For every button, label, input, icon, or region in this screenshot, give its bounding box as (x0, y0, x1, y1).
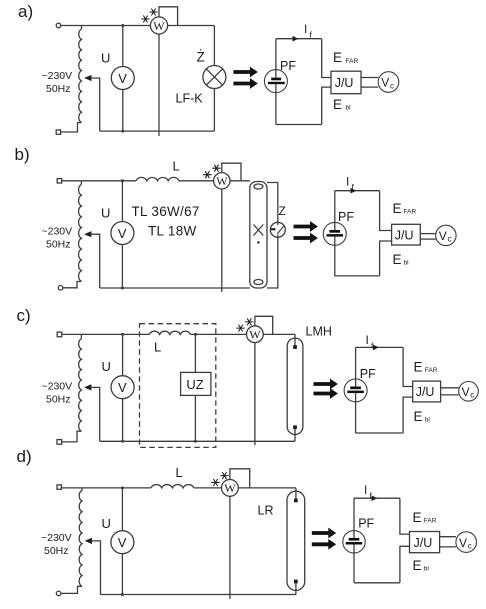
wire bottom rail (c) (100, 440, 295, 442)
svg-text:V: V (118, 226, 127, 241)
autotransformer T1 winding (d) (81, 488, 83, 491)
wire voltmeter branch (b) (121, 181, 123, 288)
svg-text:U: U (102, 516, 111, 531)
photocell PF (d) (343, 531, 365, 553)
wire top rail right (b) (179, 180, 250, 182)
wattmeter W1 (d) (222, 480, 239, 497)
svg-text:50Hz: 50Hz (46, 239, 71, 251)
voltmeter V1 (c) (111, 376, 134, 399)
wire tap to load (d) (91, 541, 101, 595)
wire bottom terminal to winding (d) (61, 586, 82, 593)
wire measuring loop bottom (d) (354, 582, 400, 584)
wire bottom rail (b) (100, 287, 250, 289)
voltmeter Vc (d) (456, 532, 477, 553)
electrode top ellipse (b) (254, 184, 263, 189)
wattmeter W1 (c) (247, 326, 264, 343)
photocell PF wire top (a) (275, 39, 277, 78)
svg-text:U: U (101, 51, 110, 66)
svg-text:E: E (393, 252, 402, 267)
current direction arrowhead If (d) (372, 495, 378, 501)
svg-text:TL 18W: TL 18W (148, 224, 197, 239)
wattmeter W1 (b) (214, 173, 230, 189)
wire bottom terminal to winding (b) (63, 282, 82, 288)
polarity asterisk 2 (b) (203, 171, 211, 178)
wire J/U to Vc lower (b) (420, 238, 436, 240)
svg-text:UZ: UZ (186, 377, 203, 392)
light emission arrow 1 (d) (312, 529, 335, 538)
voltmeter Vc (a) (378, 72, 399, 93)
autotransformer T1 winding (c) (80, 334, 82, 338)
lamp tube LMH (c) (287, 338, 303, 434)
node V-bottom junction (a) (121, 130, 124, 133)
wiper tap arrow (c) (84, 384, 91, 390)
wattmeter W1 (a) (150, 17, 167, 34)
current direction arrowhead If (a) (293, 36, 299, 42)
svg-text:V: V (118, 380, 127, 395)
voltmeter V1 (b) (111, 222, 134, 245)
svg-text:b): b) (15, 145, 30, 164)
svg-text:a): a) (18, 2, 33, 21)
wire J/U to Vc lower (a) (361, 86, 378, 88)
converter J/U box (b) (392, 224, 421, 245)
wire measuring loop bottom (b) (335, 275, 380, 277)
polarity asterisk 1 (a) (149, 9, 157, 16)
node V-bottom junction (d) (121, 593, 124, 596)
wire voltmeter branch (c) (122, 334, 124, 441)
svg-text:V: V (462, 385, 470, 399)
terminal top-left (d) (57, 485, 61, 489)
wire tap to load (c) (90, 387, 99, 441)
svg-text:I: I (304, 22, 307, 36)
svg-text:bl: bl (424, 566, 430, 573)
wire wattmeter current branch (a) (158, 34, 160, 136)
wire voltmeter branch (d) (121, 488, 123, 595)
node V-top junction (a) (121, 24, 124, 27)
svg-text:LMH: LMH (306, 325, 332, 339)
svg-text:FAR: FAR (425, 367, 438, 374)
wire wattmeter current branch (c) (254, 343, 256, 446)
converter J/U box (d) (410, 532, 440, 553)
electrode stub top (d) (295, 488, 297, 500)
svg-text:J/U: J/U (395, 228, 414, 242)
lamp LF-K (a) (203, 66, 226, 89)
svg-text:bl: bl (425, 417, 431, 424)
svg-text:W: W (153, 19, 165, 33)
photocell PF wire top (b) (334, 191, 336, 230)
wire tap to load (b) (90, 234, 99, 288)
wire bottom rail (d) (101, 594, 296, 596)
node V-bottom junction (b) (121, 287, 124, 290)
wire measuring loop right upper (d) (400, 498, 410, 534)
svg-text:PF: PF (280, 59, 296, 73)
wattmeter W1 voltage loop (b) (222, 163, 241, 181)
svg-text:E: E (414, 409, 423, 424)
wire measuring loop bottom (a) (276, 124, 322, 126)
svg-text:d): d) (17, 447, 32, 466)
wire bottom rail (a) (100, 130, 215, 132)
svg-text:c): c) (17, 306, 31, 325)
wire J/U to Vc upper (a) (361, 77, 378, 79)
photocell PF wire top (c) (355, 347, 357, 386)
wire UZ branch top (c) (194, 334, 196, 372)
photocell PF wire bottom (c) (355, 393, 357, 433)
svg-text:50Hz: 50Hz (44, 545, 69, 557)
svg-text:PF: PF (358, 517, 374, 531)
wire measuring loop right lower (a) (322, 87, 331, 124)
polarity asterisk 1 (b) (212, 165, 220, 172)
svg-text:L: L (176, 465, 183, 480)
svg-text:V: V (439, 229, 447, 243)
photocell PF wire bottom (b) (334, 237, 336, 276)
svg-text:J/U: J/U (414, 536, 433, 550)
wiper tap arrow (d) (85, 538, 92, 544)
ballast inductor L (b) (136, 177, 179, 180)
photocell PF (a) (264, 70, 287, 93)
svg-text:E: E (393, 201, 402, 216)
fluorescent tube TL (b) (250, 182, 267, 289)
wire top rail left (d) (61, 487, 151, 489)
svg-text:c: c (470, 391, 474, 400)
node V-top junction (b) (121, 179, 124, 182)
polarity asterisk 1 (d) (220, 472, 228, 479)
wire top rail right (c) (191, 333, 296, 335)
photocell PF (b) (323, 222, 346, 245)
wire top rail (a) (61, 25, 214, 27)
wire voltmeter branch (a) (122, 26, 124, 132)
polarity asterisk 1 (c) (245, 318, 253, 325)
wire wattmeter current branch (d) (229, 496, 231, 599)
svg-text:~230V: ~230V (42, 70, 73, 82)
svg-text:I: I (364, 483, 367, 497)
electrode stub bottom (c) (294, 427, 296, 441)
light emission arrow 1 (b) (294, 222, 317, 231)
wire J/U to Vc lower (d) (440, 546, 456, 548)
svg-text:~230V: ~230V (42, 226, 73, 238)
ballast box dashed (c) (140, 324, 216, 448)
photocell PF wire top (d) (353, 498, 355, 538)
wire top rail left (c) (62, 333, 150, 335)
starter UZ box (c) (181, 372, 211, 395)
svg-text:f: f (310, 30, 313, 40)
svg-text:I: I (346, 175, 349, 189)
svg-text:I: I (366, 333, 369, 347)
wire J/U to Vc upper (d) (440, 536, 456, 538)
tube X mark (b) (254, 225, 264, 236)
wire wattmeter current branch (b) (221, 189, 223, 292)
wire measuring loop top (d) (354, 497, 400, 499)
svg-text:L: L (173, 159, 180, 174)
svg-text:Ż: Ż (197, 50, 205, 65)
wire lamp branch (a) (213, 26, 215, 132)
svg-text:50Hz: 50Hz (46, 394, 71, 406)
svg-text:bl: bl (346, 105, 352, 112)
polarity asterisk 2 (c) (236, 325, 244, 332)
svg-text:50Hz: 50Hz (46, 83, 71, 95)
svg-text:J/U: J/U (416, 385, 435, 399)
svg-text:U: U (101, 206, 110, 221)
wire top rail right (d) (194, 487, 296, 489)
svg-text:E: E (333, 97, 342, 112)
light emission arrow 1 (a) (234, 68, 257, 77)
voltmeter Vc (c) (459, 382, 479, 402)
wire measuring loop right lower (b) (380, 241, 392, 276)
light emission arrow 2 (d) (312, 540, 335, 549)
autotransformer T1 winding (b) (80, 181, 82, 185)
wire measuring loop right lower (d) (400, 546, 410, 583)
electrode bottom ellipse (b) (254, 280, 263, 285)
svg-text:c: c (390, 81, 394, 90)
node UZ-top junction (c) (194, 333, 197, 336)
photocell PF wire bottom (d) (353, 545, 355, 583)
converter J/U box (a) (331, 71, 361, 94)
terminal top-left (c) (57, 332, 62, 337)
node V-top junction (d) (121, 486, 124, 489)
wire tap to load (a) (91, 78, 100, 131)
voltmeter Vc (b) (436, 225, 456, 245)
svg-text:U: U (102, 359, 111, 374)
wire UZ branch bottom (c) (194, 395, 196, 441)
autotransformer T1 winding (a) (81, 26, 83, 30)
svg-text:E: E (414, 360, 423, 375)
svg-text:~230V: ~230V (41, 532, 72, 544)
photocell PF wire bottom (a) (275, 84, 277, 124)
wire starter loop top (b) (267, 183, 278, 224)
terminal top-left (b) (57, 179, 62, 183)
tube dot mark (b) (257, 241, 260, 244)
wattmeter W1 voltage loop (c) (255, 316, 273, 334)
polarity asterisk 2 (d) (211, 479, 219, 486)
light emission arrow 2 (b) (294, 234, 317, 243)
node UZ-bottom junction (c) (194, 440, 197, 443)
svg-text:E: E (413, 510, 422, 525)
wattmeter W1 voltage loop (d) (230, 469, 250, 488)
electrode stub bottom (d) (295, 581, 297, 594)
svg-text:c: c (448, 235, 452, 244)
lamp tube LR (d) (287, 491, 305, 590)
svg-text:c: c (468, 541, 472, 550)
svg-text:bl: bl (404, 260, 410, 267)
terminal bottom-left (d) (56, 591, 61, 596)
node V-bottom junction (c) (121, 440, 124, 443)
converter J/U box (c) (413, 381, 441, 402)
svg-text:LF-K: LF-K (176, 92, 204, 106)
polarity asterisk 2 (a) (141, 16, 149, 23)
current direction arrowhead If (c) (373, 345, 379, 351)
svg-text:TL 36W/67: TL 36W/67 (132, 204, 200, 219)
ballast inductor L (d) (151, 485, 194, 488)
wire measuring loop top (b) (335, 190, 380, 192)
svg-text:FAR: FAR (424, 517, 437, 524)
wire measuring loop bottom (c) (356, 432, 404, 434)
terminal top-left (a) (56, 23, 61, 28)
svg-text:LR: LR (258, 504, 274, 518)
svg-text:FAR: FAR (404, 209, 417, 216)
photocell PF (c) (344, 379, 367, 402)
wire measuring loop right lower (c) (403, 397, 413, 433)
light emission arrow 1 (c) (314, 380, 337, 389)
svg-text:E: E (413, 558, 422, 573)
svg-text:Z: Z (279, 204, 286, 218)
wire measuring loop right upper (c) (403, 347, 413, 386)
voltmeter V1 (d) (111, 531, 134, 554)
svg-text:V: V (381, 76, 389, 90)
wire bottom terminal to winding (c) (62, 431, 82, 442)
wire measuring loop right upper (b) (380, 191, 392, 231)
wire measuring loop right upper (a) (322, 39, 331, 78)
svg-text:J/U: J/U (335, 76, 354, 90)
terminal bottom-left (a) (56, 130, 60, 134)
svg-text:V: V (459, 536, 467, 550)
voltmeter V1 (a) (111, 67, 134, 90)
wattmeter W1 voltage loop (a) (159, 7, 178, 26)
wiper tap arrow (b) (84, 231, 91, 237)
svg-text:PF: PF (338, 210, 354, 224)
wire measuring loop top (a) (276, 38, 322, 40)
terminal bottom-left (b) (58, 286, 63, 291)
current direction arrowhead If (b) (351, 188, 357, 194)
terminal bottom-left (c) (57, 440, 62, 445)
svg-text:~230V: ~230V (42, 381, 73, 393)
wire J/U to Vc upper (c) (441, 387, 459, 389)
svg-text:L: L (154, 340, 161, 355)
electrode stub top (c) (294, 334, 296, 346)
light emission arrow 2 (a) (234, 79, 257, 88)
wire bottom terminal to winding (a) (61, 123, 82, 132)
wire J/U to Vc upper (b) (420, 233, 436, 235)
svg-text:W: W (224, 481, 236, 495)
node V-top junction (c) (121, 333, 124, 336)
light emission arrow 2 (c) (314, 389, 337, 398)
ballast inductor L (c) (149, 331, 190, 334)
wire top rail left (b) (62, 180, 136, 182)
svg-text:V: V (118, 71, 127, 86)
svg-text:W: W (216, 174, 228, 188)
wire starter loop bottom (b) (267, 237, 278, 288)
wire measuring loop top (c) (356, 346, 404, 348)
svg-text:V: V (118, 535, 127, 550)
svg-text:FAR: FAR (346, 58, 359, 65)
wire J/U to Vc lower (c) (441, 394, 459, 396)
svg-text:W: W (249, 327, 261, 341)
svg-text:PF: PF (360, 367, 376, 381)
svg-text:E: E (333, 50, 342, 65)
starter Z (b) (270, 222, 285, 237)
wiper tap arrow (a) (84, 75, 91, 81)
